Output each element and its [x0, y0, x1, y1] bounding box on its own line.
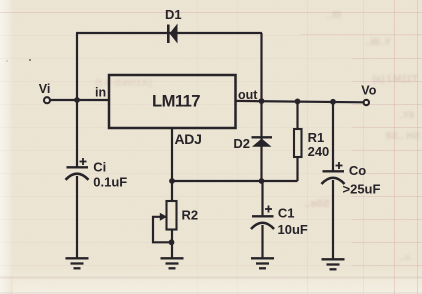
svg-text:0t..: 0t..: [326, 10, 341, 21]
svg-text:SH ..S8: SH ..S8: [385, 131, 420, 142]
resistor R1 240: [294, 129, 329, 159]
svg-text:Vi: Vi: [39, 82, 51, 96]
wire R2 bottom lead to ground: [171, 230, 173, 259]
wire top rail with D1: [76, 32, 262, 34]
node R1 top junction: [295, 99, 301, 105]
capacitor Co >25uF: [322, 162, 381, 196]
faint bleed-through text: [95, 10, 420, 262]
wire left vertical (input node up to top rail): [76, 33, 78, 100]
node input junction: [74, 97, 80, 103]
svg-text:C1: C1: [278, 205, 295, 220]
svg-text:LM117: LM117: [152, 92, 200, 111]
wire ADJ horizontal line: [172, 180, 298, 182]
wire R1 bottom lead: [296, 157, 298, 181]
wire D2 branch vertical (out to ADJ line): [260, 101, 262, 182]
diode D1 (cathode bar left, triangle points left): [165, 7, 182, 44]
svg-text:0.1uF: 0.1uF: [93, 175, 127, 190]
svg-text:>25uF: >25uF: [343, 181, 381, 196]
wire R2 wiper loop: [153, 217, 172, 243]
wire output line to Vo: [235, 101, 363, 102]
terminal Vo: [361, 84, 376, 106]
svg-text:R1: R1: [308, 130, 325, 145]
svg-text:10uF: 10uF: [278, 222, 308, 237]
svg-text:240: 240: [308, 144, 330, 159]
terminal Vi: [39, 82, 51, 103]
svg-text:Vo: Vo: [361, 84, 376, 98]
ground (R2): [161, 258, 184, 268]
wire R2 top lead: [171, 181, 173, 201]
svg-text:S0e..: S0e..: [304, 198, 330, 210]
svg-text:8Y..: 8Y..: [399, 110, 414, 120]
ground (Co): [322, 259, 345, 269]
node out / D1 / D2 junction: [259, 98, 265, 104]
wire Co top lead: [332, 101, 334, 171]
node Co junction: [330, 99, 336, 105]
svg-text:Y..W..: Y..W..: [365, 37, 391, 48]
wire Ci bottom lead to ground: [76, 176, 78, 258]
potentiometer R2: [160, 201, 198, 230]
ground (C1): [251, 258, 274, 268]
svg-text:R2: R2: [182, 207, 199, 222]
node D2 anode / C1 junction: [259, 178, 265, 184]
wire ADJ pin vertical: [171, 128, 173, 181]
svg-text:in: in: [95, 85, 106, 99]
wire input node down to Ci: [76, 100, 78, 167]
capacitor Ci 0.1uF: [66, 158, 128, 190]
capacitor C1 10uF: [251, 205, 308, 237]
svg-text:.c..: .c..: [399, 252, 412, 262]
svg-text:ADJ: ADJ: [175, 131, 202, 147]
wire C1 bottom lead to ground: [261, 225, 263, 258]
svg-text:Co: Co: [349, 163, 366, 178]
node ADJ junction: [169, 178, 175, 184]
wire C1 top lead: [261, 181, 263, 216]
diode D2 (cathode bar top, triangle points up): [233, 136, 272, 151]
svg-text:out: out: [238, 88, 258, 102]
svg-text:Ci: Ci: [93, 160, 106, 175]
wire R1 top lead: [296, 101, 298, 129]
speck: [29, 59, 31, 61]
wire input horizontal Vi to regulator in pin: [50, 99, 109, 101]
svg-text:D1: D1: [165, 7, 182, 22]
svg-text:D2: D2: [233, 136, 250, 151]
node R2 wiper tie: [169, 239, 175, 245]
wire right vertical from top rail down to out line: [260, 33, 262, 101]
wire Co bottom lead to ground: [332, 180, 334, 259]
regulator U1 LM117 body: [109, 75, 236, 128]
svg-text:T11MJ (a): T11MJ (a): [372, 74, 418, 85]
ground (Ci): [66, 258, 89, 268]
